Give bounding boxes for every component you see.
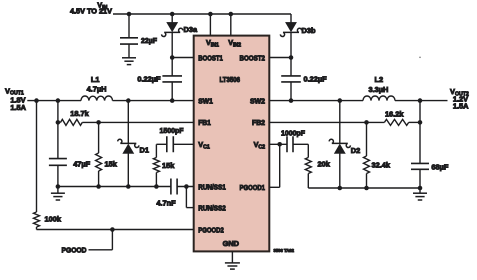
svg-text:FB2: FB2	[252, 118, 265, 127]
svg-text:0.22µF: 0.22µF	[137, 75, 161, 84]
svg-text:L2: L2	[374, 75, 383, 84]
svg-text:4.7µH: 4.7µH	[87, 85, 107, 94]
svg-text:L1: L1	[91, 75, 100, 84]
svg-text:32.4k: 32.4k	[372, 160, 391, 169]
svg-text:1500pF: 1500pF	[160, 126, 184, 135]
svg-text:D1: D1	[140, 145, 149, 154]
svg-text:D3b: D3b	[302, 26, 316, 35]
svg-text:16.2k: 16.2k	[385, 109, 404, 118]
svg-text:47µF: 47µF	[73, 159, 90, 168]
svg-text:SW1: SW1	[198, 96, 213, 105]
svg-text:PGOOD2: PGOOD2	[198, 225, 224, 234]
svg-text:18.7k: 18.7k	[70, 109, 89, 118]
svg-text:RUN/SS1: RUN/SS1	[198, 182, 226, 191]
svg-text:68µF: 68µF	[431, 162, 448, 171]
svg-text:1.5A: 1.5A	[10, 103, 26, 112]
svg-text:RUN/SS2: RUN/SS2	[198, 204, 226, 213]
svg-text:15k: 15k	[162, 161, 175, 170]
svg-text:FB1: FB1	[198, 118, 211, 127]
svg-text:PGOOD: PGOOD	[62, 245, 88, 254]
svg-text:3.3µH: 3.3µH	[368, 85, 388, 94]
svg-text:BOOST1: BOOST1	[198, 53, 223, 62]
svg-text:20k: 20k	[318, 160, 331, 169]
svg-text:0.22µF: 0.22µF	[304, 75, 328, 84]
svg-text:SW2: SW2	[250, 96, 265, 105]
svg-text:4.5V TO 21V: 4.5V TO 21V	[70, 7, 112, 16]
svg-text:100k: 100k	[45, 214, 62, 223]
svg-text:PGOOD1: PGOOD1	[240, 183, 266, 192]
svg-text:1000pF: 1000pF	[281, 129, 305, 138]
svg-text:BOOST2: BOOST2	[240, 53, 266, 62]
svg-text:4.7nF: 4.7nF	[156, 199, 176, 208]
svg-text:GND: GND	[223, 239, 240, 248]
svg-text:D3a: D3a	[184, 25, 198, 34]
svg-text:15k: 15k	[105, 159, 118, 168]
svg-text:3506 TA02: 3506 TA02	[274, 248, 295, 253]
svg-text:1.5A: 1.5A	[453, 101, 469, 110]
svg-text:22µF: 22µF	[141, 36, 157, 45]
svg-text:LT3506: LT3506	[220, 77, 241, 84]
svg-text:D2: D2	[351, 146, 360, 155]
